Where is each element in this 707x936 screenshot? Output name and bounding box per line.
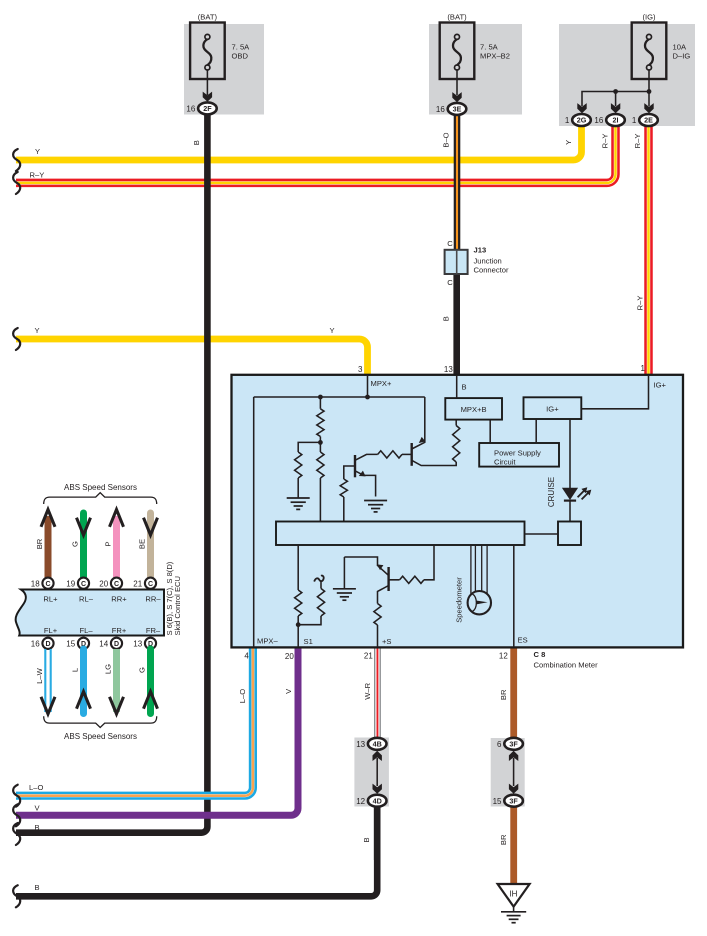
svg-text:C: C [148, 581, 153, 588]
svg-text:RR+: RR+ [111, 594, 127, 603]
svg-text:FL+: FL+ [44, 626, 58, 635]
wire MPX+ horizontal rail [254, 396, 425, 398]
svg-text:BE: BE [137, 539, 146, 549]
svg-text:OBD: OBD [232, 52, 249, 61]
junction node on MPX+ rail at pin stub [365, 395, 370, 400]
resistor R4 (Q1 base to bus) [340, 479, 347, 497]
wire from MPX-B2 fuse to terminal 3E [456, 70, 458, 95]
wire MPX- left vertical to pin 4 [253, 397, 255, 647]
svg-text:FR+: FR+ [112, 626, 127, 635]
terminal 20 C [111, 578, 122, 589]
wire from OBD fuse to terminal 2F [206, 70, 208, 95]
svg-text:C 8: C 8 [534, 650, 546, 659]
junction node S1 [296, 622, 301, 627]
wire R-Y from fuse 2E down to IG+ pin [644, 126, 653, 375]
svg-text:FL–: FL– [79, 626, 93, 635]
transistor Q2 [411, 443, 413, 466]
wire B from J13 to pin 13 B [453, 274, 460, 376]
svg-text:R–Y: R–Y [30, 171, 45, 180]
fuse block (BAT) 7.5A OBD [184, 24, 264, 115]
svg-text:3F: 3F [509, 796, 518, 805]
svg-text:18: 18 [31, 579, 40, 588]
wire S1 branch from bus [297, 545, 299, 590]
terminal 15 D [78, 638, 89, 649]
terminal 13 4B [368, 738, 387, 750]
svg-text:4B: 4B [373, 740, 382, 749]
sub-box MPX+B [445, 398, 502, 420]
svg-text:ABS Speed Sensors: ABS Speed Sensors [64, 732, 137, 741]
svg-text:16: 16 [186, 104, 195, 113]
brace top [44, 493, 157, 504]
svg-text:2E: 2E [644, 116, 653, 125]
junction connector J13 [445, 250, 468, 274]
sub-box Power Supply Circuit [479, 443, 559, 467]
terminal 18 C [42, 578, 53, 589]
resistor R1 (upper chain) [317, 409, 324, 437]
ground G1 [287, 498, 310, 509]
svg-text:Speedometer: Speedometer [455, 577, 464, 623]
resistor R3 (to ground) [295, 452, 302, 478]
continuation mark Y2 [13, 328, 20, 350]
svg-text:D–IG: D–IG [673, 52, 691, 61]
svg-text:RR–: RR– [145, 594, 161, 603]
junction node on MPX+ rail at resistor chain [318, 395, 323, 400]
resistor R9 (Q3 collector to +S) [374, 604, 381, 626]
resistor R7 (S1) [295, 590, 302, 616]
terminal 16 3E [448, 103, 467, 115]
svg-text:Combination Meter: Combination Meter [534, 661, 599, 670]
wire V from S1 pin 20 down and left [16, 648, 298, 815]
continuation mark Y [13, 149, 20, 171]
svg-text:J13: J13 [474, 246, 487, 255]
svg-text:20: 20 [285, 652, 294, 661]
svg-text:BR: BR [499, 834, 508, 845]
terminal 6 3F [504, 738, 523, 750]
wire L-O from MPX- pin 4 down and left [16, 648, 253, 796]
pin 13 B stub [456, 375, 458, 398]
wire B from connector 4D down [374, 807, 381, 860]
wire MPX+B to Power Supply Circuit [489, 420, 491, 443]
terminal 12 4D [368, 795, 387, 807]
svg-text:7. 5A: 7. 5A [232, 43, 251, 52]
svg-text:7. 5A: 7. 5A [480, 43, 499, 52]
connector block 3F/3F [491, 738, 525, 807]
wire G ABS sensor (top) [80, 513, 87, 578]
svg-text:(BAT): (BAT) [447, 13, 467, 22]
svg-text:B: B [462, 382, 467, 391]
wire bus bar to coupler square [525, 533, 559, 535]
junction node between R1 and R2 [318, 440, 323, 445]
svg-text:IG+: IG+ [546, 404, 559, 413]
terminal 1 2E [639, 114, 658, 126]
terminal 14 D [111, 638, 122, 649]
svg-text:L–W: L–W [35, 667, 44, 683]
wire LG ABS sensor (bottom) [113, 649, 120, 712]
svg-text:1: 1 [641, 364, 646, 373]
svg-text:R–Y: R–Y [636, 296, 645, 311]
wire R-Y from fuse 2I to left (horizontal) [16, 126, 616, 183]
wire L ABS sensor (bottom) [80, 649, 87, 714]
svg-text:15: 15 [493, 797, 502, 806]
svg-text:21: 21 [133, 579, 142, 588]
svg-text:RL–: RL– [79, 594, 94, 603]
svg-text:13: 13 [356, 740, 365, 749]
svg-text:D: D [45, 641, 50, 648]
ground G2 (Q1 emitter) [364, 501, 387, 512]
svg-text:2I: 2I [613, 116, 619, 125]
resistor R6 (Q2 to MPX+B) [453, 426, 460, 462]
wire ground rail to Q3 emitter [344, 557, 377, 566]
svg-text:MPX–: MPX– [257, 636, 278, 645]
svg-text:1: 1 [565, 116, 570, 125]
svg-text:C: C [447, 278, 453, 287]
svg-text:Y: Y [35, 147, 40, 156]
wire BE ABS sensor (top) [147, 513, 154, 578]
svg-text:21: 21 [364, 651, 373, 660]
resistor R2 (lower chain to bus) [317, 452, 324, 478]
svg-text:S1: S1 [304, 637, 313, 646]
svg-text:14: 14 [99, 640, 108, 649]
svg-text:20: 20 [99, 579, 108, 588]
junction dot on IG feed at 2I [613, 89, 618, 94]
svg-text:MPX+B: MPX+B [461, 405, 487, 414]
svg-text:12: 12 [356, 797, 365, 806]
svg-text:BR: BR [35, 538, 44, 549]
wire IG+ to Power Supply Circuit [535, 419, 537, 443]
LED CRUISE indicator [562, 488, 578, 500]
svg-text:FR–: FR– [146, 626, 161, 635]
svg-text:16: 16 [436, 105, 445, 114]
arrow into terminal 2E [644, 103, 653, 113]
wire BR ABS sensor (top) [45, 516, 52, 578]
svg-text:P: P [103, 541, 112, 546]
wire BR from ES pin 12 to connector 3F [510, 648, 517, 738]
continuation mark B2 [13, 885, 20, 907]
svg-text:C: C [81, 581, 86, 588]
pin 3 MPX+ stub [367, 375, 369, 397]
svg-text:Power Supply: Power Supply [494, 448, 541, 457]
pin 1 IG+ stub wire [581, 375, 648, 409]
terminal 16 2I [606, 114, 625, 126]
wire ES from bus bar to pin 12 [513, 545, 515, 647]
arrow into terminal 2G [577, 103, 586, 113]
svg-text:BR: BR [499, 689, 508, 700]
bus bar [276, 522, 525, 546]
continuation mark L-O [13, 785, 20, 807]
terminal 16 D [42, 638, 53, 649]
svg-text:16: 16 [594, 116, 603, 125]
svg-text:Skid Control ECU: Skid Control ECU [173, 576, 182, 636]
terminal 19 C [78, 578, 89, 589]
pickup hook symbol [314, 576, 323, 582]
arrow into terminal 2I [611, 103, 620, 113]
svg-text:(IG): (IG) [642, 13, 656, 22]
svg-text:4D: 4D [373, 796, 382, 805]
svg-text:W–R: W–R [363, 682, 372, 699]
svg-text:C: C [45, 581, 50, 588]
svg-text:+S: +S [382, 637, 392, 646]
svg-text:12: 12 [499, 651, 508, 660]
svg-text:C: C [447, 239, 453, 248]
wire L-W ABS sensor (bottom) [45, 649, 50, 712]
LED light arrows [578, 491, 588, 500]
terminal 21 C [145, 578, 156, 589]
arrow into terminal 2F [203, 92, 212, 102]
continuation mark V [13, 804, 20, 826]
svg-text:10A: 10A [673, 43, 687, 52]
wire P ABS sensor (top) [113, 516, 120, 578]
svg-text:B–O: B–O [441, 132, 450, 147]
svg-text:CRUISE: CRUISE [547, 477, 556, 507]
svg-text:B: B [192, 140, 201, 145]
terminal 15 3F [504, 795, 523, 807]
svg-text:13: 13 [444, 365, 453, 374]
svg-text:L–O: L–O [29, 783, 43, 792]
wire Y to MPX+ pin 3 (horizontal then down) [16, 339, 368, 375]
resistor R8 (hook branch) [317, 589, 324, 617]
svg-text:G: G [137, 667, 146, 673]
arrow up into 3F top [509, 751, 518, 761]
wire Q1 base [344, 466, 355, 479]
svg-text:IH: IH [509, 889, 517, 898]
continuation mark B [13, 823, 20, 845]
wire W-R from +S pin 21 to connector 4B [375, 648, 381, 738]
svg-text:R–Y: R–Y [633, 134, 642, 149]
terminal 1 2G [572, 114, 591, 126]
svg-text:Junction: Junction [474, 256, 502, 265]
ground IH triangle [498, 884, 530, 907]
svg-text:3F: 3F [509, 740, 518, 749]
svg-text:19: 19 [66, 579, 75, 588]
svg-text:LG: LG [103, 664, 112, 674]
svg-text:MPX–B2: MPX–B2 [480, 52, 510, 61]
arrow into terminal 3E [452, 92, 461, 102]
svg-text:Circuit: Circuit [494, 458, 516, 467]
svg-text:B: B [35, 883, 40, 892]
svg-text:D: D [114, 641, 119, 648]
ground G3 (Q3 emitter) [343, 557, 345, 588]
wire Y from fuse 2G to left (horizontal) [16, 126, 582, 160]
wire from D-IG fuse to terminals 2G 2I 2E [582, 70, 649, 106]
svg-text:3E: 3E [453, 105, 462, 114]
brace bottom [44, 716, 157, 727]
svg-text:B: B [35, 823, 40, 832]
skid control ECU box [16, 590, 164, 636]
svg-text:G: G [70, 541, 79, 547]
wire branch to R3 [298, 442, 320, 452]
svg-text:L: L [70, 668, 79, 672]
svg-text:Connector: Connector [474, 265, 510, 274]
svg-text:ABS Speed Sensors: ABS Speed Sensors [64, 483, 137, 492]
fuse block (IG) 10A D-IG [559, 24, 695, 126]
svg-text:IG+: IG+ [654, 380, 667, 389]
svg-text:2F: 2F [203, 104, 212, 113]
wire G ABS sensor (bottom) [147, 649, 154, 714]
resistor R5 (Q1-Q2 coupling) [378, 451, 402, 458]
transistor Q3 [387, 567, 389, 591]
svg-text:L–O: L–O [238, 689, 247, 703]
svg-text:1: 1 [632, 116, 637, 125]
speedometer feed wires [471, 545, 487, 594]
wire IG+ down to LED [569, 419, 571, 488]
terminal 13 D [145, 638, 156, 649]
connector block 4B/4D [354, 738, 389, 807]
svg-text:Y: Y [34, 326, 39, 335]
transistor Q1 [354, 455, 356, 477]
svg-text:RL+: RL+ [43, 594, 58, 603]
wire B from fuse 2F down and left to bottom [16, 113, 207, 833]
svg-text:Y: Y [329, 326, 334, 335]
junction dot on IG feed at 2E [647, 89, 652, 94]
fuse block (BAT) 7.5A MPX-B2 [429, 24, 522, 115]
svg-text:2G: 2G [577, 116, 587, 125]
wire B-O from fuse 3E to junction J13 [454, 114, 461, 251]
svg-text:C: C [114, 581, 119, 588]
combination meter C8 box [232, 375, 684, 648]
arrow down into 4D [373, 784, 382, 794]
ground symbol [513, 907, 515, 912]
coupler square box [558, 522, 581, 546]
sub-box IG+ [524, 397, 582, 419]
link wire 4B-4D [376, 758, 378, 786]
svg-text:16: 16 [31, 640, 40, 649]
speedometer gauge [468, 591, 491, 614]
terminal 16 2F [198, 102, 217, 114]
svg-text:ES: ES [518, 635, 528, 644]
link wire 3F-3F [513, 758, 515, 786]
svg-text:R–Y: R–Y [600, 134, 609, 149]
wire BR from connector 3F to ground IH [510, 807, 517, 885]
svg-text:3: 3 [358, 365, 363, 374]
svg-text:13: 13 [133, 640, 142, 649]
svg-text:B: B [442, 316, 451, 321]
wire B bottom horizontal to connector 4D [16, 807, 377, 897]
continuation mark R-Y [13, 172, 20, 194]
resistor R10 (Q3 base) [400, 576, 424, 583]
svg-text:6: 6 [497, 740, 502, 749]
svg-text:(BAT): (BAT) [198, 13, 218, 22]
arrow up into 4B [373, 751, 382, 761]
svg-text:15: 15 [66, 640, 75, 649]
svg-text:MPX+: MPX+ [371, 379, 392, 388]
svg-text:4: 4 [244, 651, 249, 660]
svg-text:Y: Y [564, 140, 573, 145]
svg-text:B: B [362, 837, 371, 842]
arrow down into 3F bottom [509, 784, 518, 794]
